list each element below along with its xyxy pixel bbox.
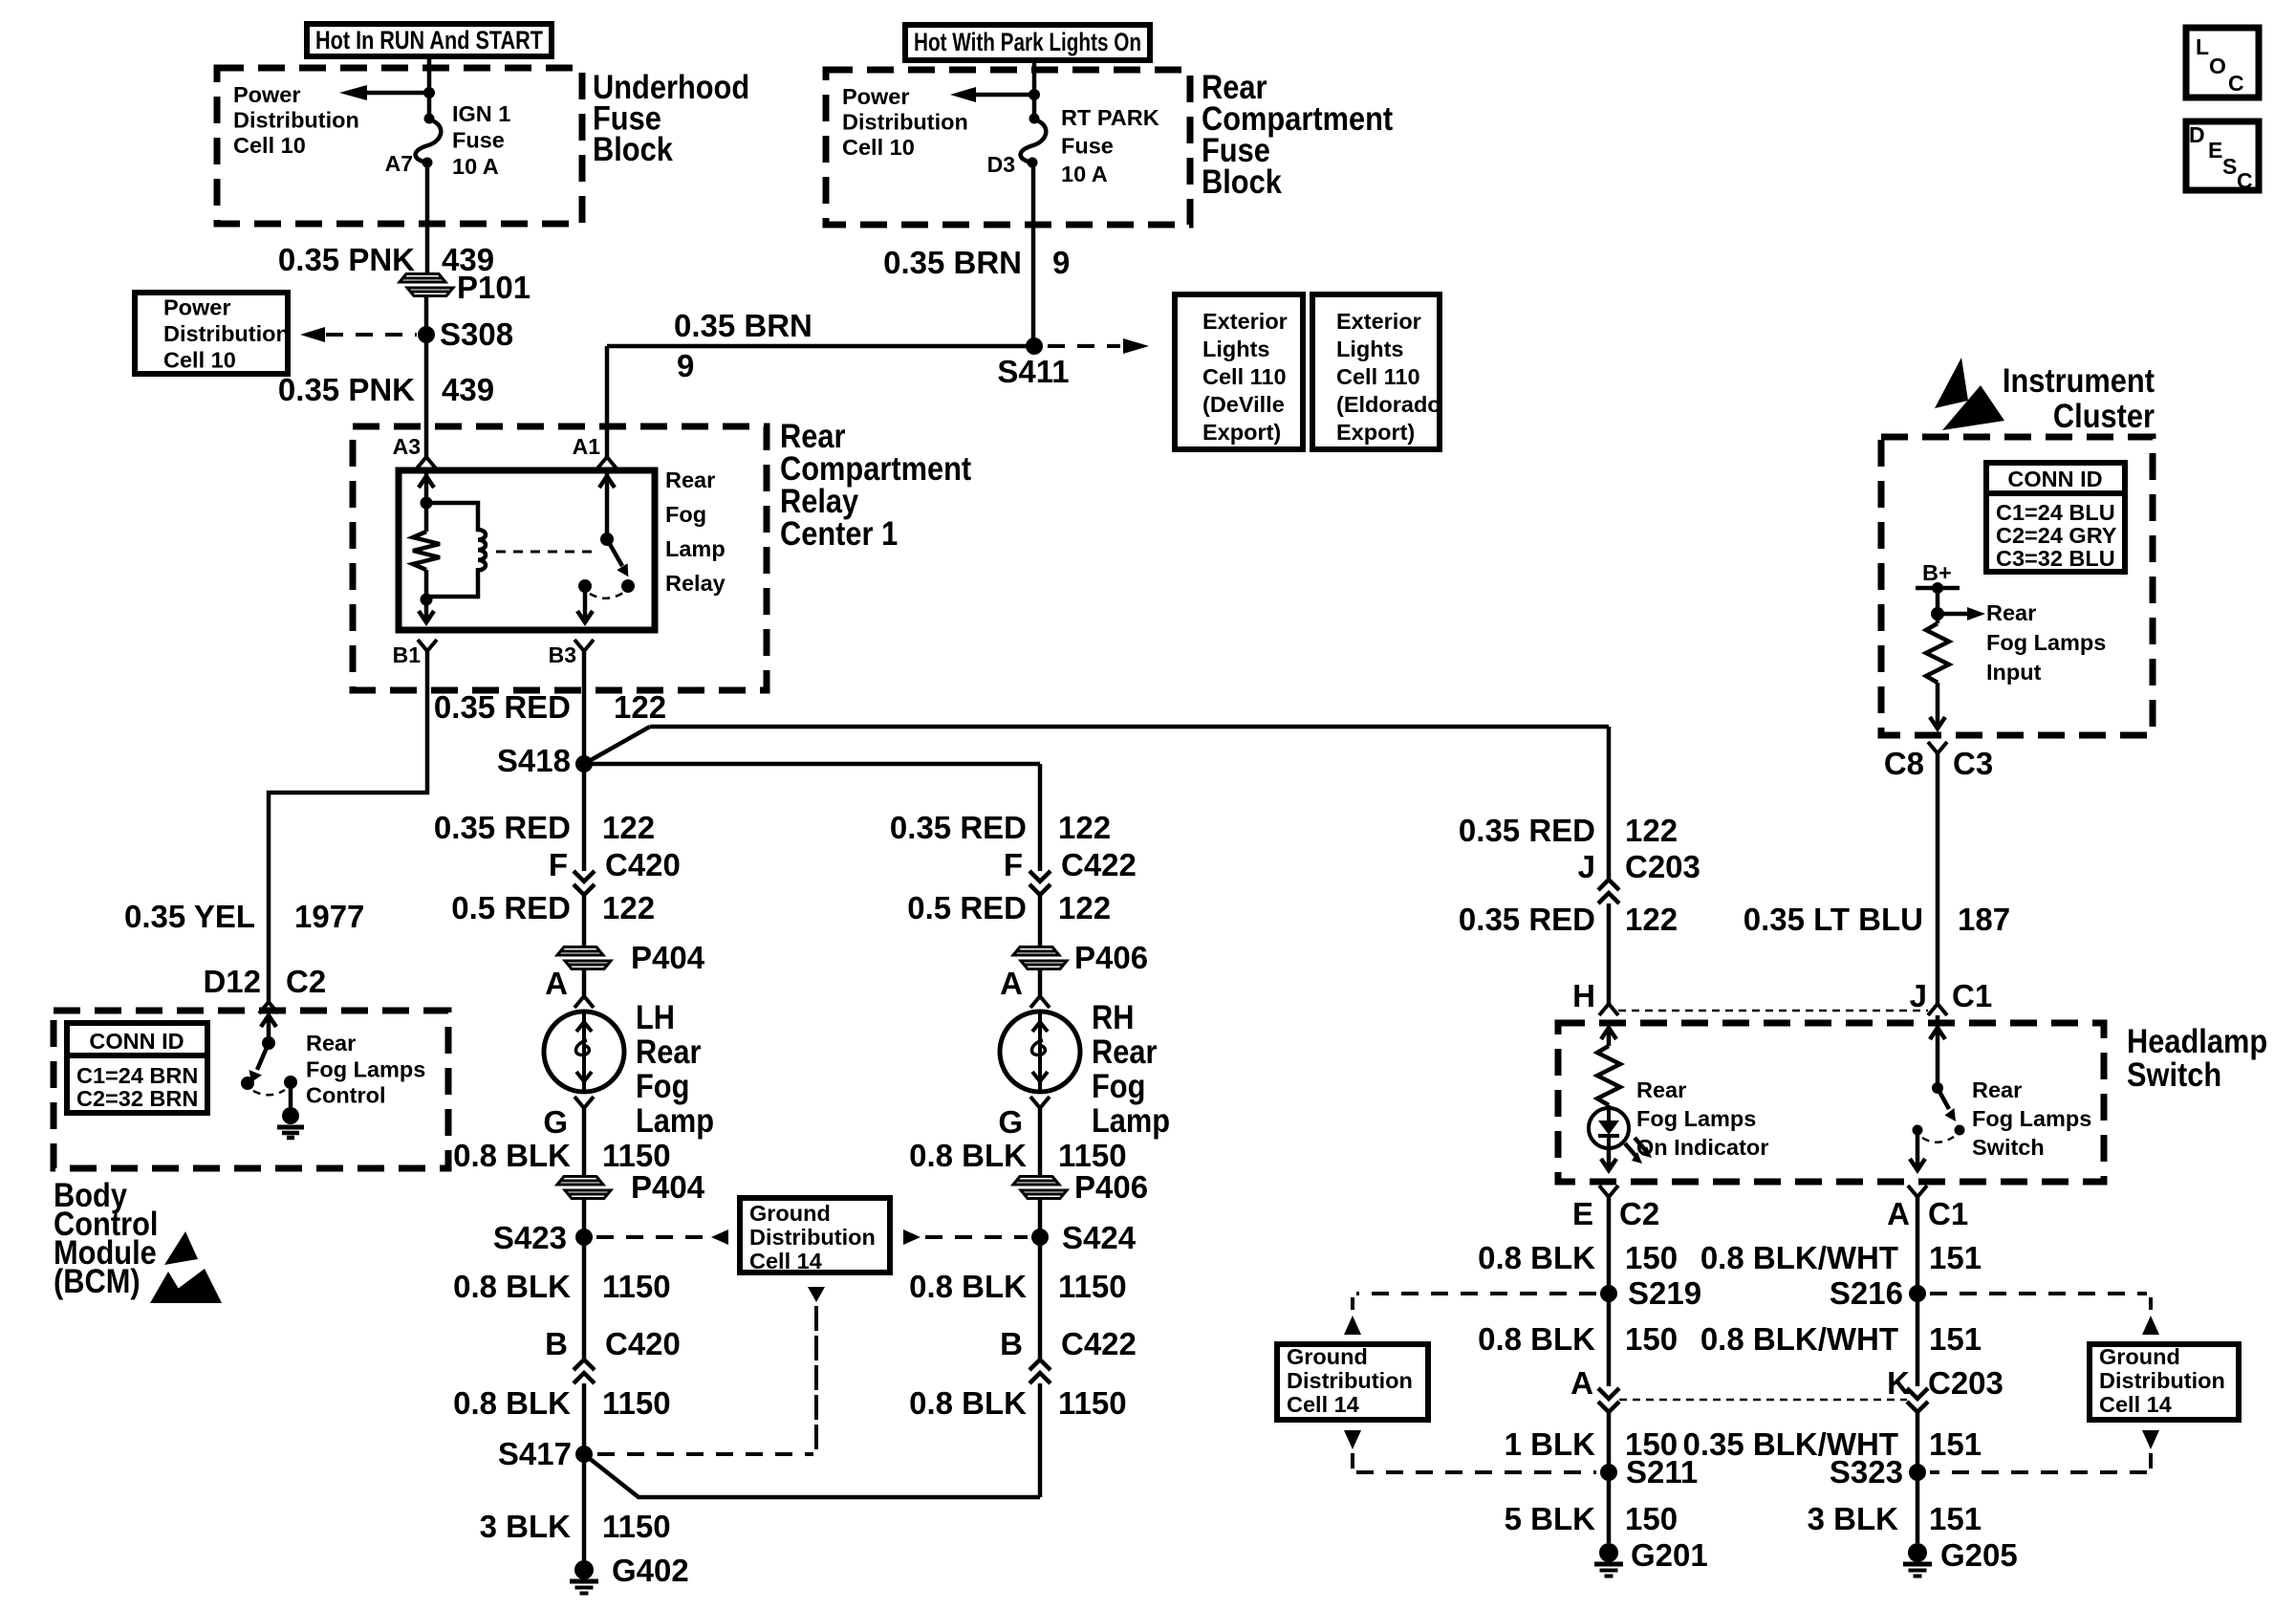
pin C8 C3	[1884, 742, 1993, 781]
headlamp switch pivot	[1932, 1082, 1943, 1094]
label 0.35 PNK 439	[278, 242, 494, 277]
node park fuse feed	[1029, 89, 1040, 100]
svg-text:C3: C3	[1953, 746, 1993, 781]
BCM switch arm	[249, 1043, 270, 1082]
resistor fog lamps input	[1926, 623, 1949, 683]
svg-text:151: 151	[1929, 1240, 1982, 1275]
LED light arrows	[1625, 1138, 1652, 1164]
svg-text:1150: 1150	[602, 1269, 671, 1304]
label 0.8 BLK 1150	[909, 1269, 1126, 1304]
wire RH return	[1038, 1108, 1043, 1177]
svg-text:C1=24 BLU: C1=24 BLU	[1996, 500, 2115, 525]
splice S424	[1031, 1220, 1137, 1255]
wire to LH lamp	[582, 968, 587, 996]
box Ground Distribution Cell 14 (middle)	[740, 1198, 890, 1273]
wire resistor to connector	[1936, 683, 1940, 729]
svg-text:0.8 BLK: 0.8 BLK	[1478, 1240, 1595, 1275]
svg-text:0.8 BLK: 0.8 BLK	[909, 1269, 1027, 1304]
dashed reference S423 to ground distribution	[596, 1229, 728, 1245]
splice S211	[1600, 1454, 1698, 1490]
relay coil	[426, 503, 486, 597]
svg-text:122: 122	[1625, 902, 1678, 937]
svg-text:C2: C2	[286, 964, 326, 999]
splice S308	[418, 316, 513, 352]
svg-text:0.35 LT BLU: 0.35 LT BLU	[1744, 902, 1923, 937]
BCM switch contact left	[241, 1077, 254, 1090]
rear compartment fuse block dashed box	[826, 70, 1190, 225]
connector grommet P404	[557, 940, 705, 975]
connector face dashed line	[1618, 1010, 1928, 1012]
connector grommet P404 return	[557, 1169, 705, 1205]
svg-text:A: A	[545, 966, 568, 1001]
wire LH feed	[582, 764, 587, 871]
wire B+ feed	[1936, 588, 1940, 623]
dashed reference S417 to ground distribution	[597, 1310, 816, 1454]
label 0.35 YEL 1977	[124, 899, 364, 934]
svg-text:0.35 YEL: 0.35 YEL	[124, 899, 255, 934]
svg-text:C1: C1	[1928, 1196, 1968, 1231]
arrow down cluster output	[1930, 717, 1945, 729]
arrow up into relay	[419, 476, 434, 488]
relay center 1 dashed box	[353, 426, 767, 690]
svg-text:C3=32 BLU: C3=32 BLU	[1996, 546, 2115, 571]
svg-text:9: 9	[677, 348, 694, 383]
svg-text:G205: G205	[1940, 1537, 2018, 1573]
wire hot park feed	[1032, 60, 1037, 119]
svg-text:5 BLK: 5 BLK	[1505, 1501, 1596, 1536]
fuse IGN 1 10 A	[416, 120, 442, 163]
splice S219	[1600, 1275, 1701, 1311]
box Ground Distribution Cell 14 (left)	[1277, 1344, 1428, 1420]
svg-text:C422: C422	[1061, 1326, 1137, 1361]
mechanical linkage dashed	[496, 551, 594, 554]
svg-text:S216: S216	[1830, 1275, 1903, 1311]
svg-text:1 BLK: 1 BLK	[1505, 1426, 1596, 1462]
BCM switch input arrow	[261, 1015, 276, 1043]
connector C420 pin B	[545, 1326, 681, 1383]
node fuse bottom A7	[422, 158, 433, 168]
label 0.5 RED 122	[907, 890, 1111, 925]
svg-text:A7: A7	[385, 151, 413, 176]
wire RH feed	[1038, 764, 1043, 871]
wire 0.35 BRN 9 horizontal	[607, 344, 1034, 349]
svg-text:S308: S308	[440, 316, 513, 352]
svg-text:S211: S211	[1626, 1454, 1698, 1490]
svg-text:E: E	[1572, 1196, 1593, 1231]
svg-text:G201: G201	[1631, 1537, 1708, 1573]
ground BCM internal	[277, 1107, 304, 1138]
wire to RH lamp	[1038, 968, 1043, 996]
svg-text:0.35 PNK: 0.35 PNK	[278, 242, 415, 277]
svg-text:S219: S219	[1628, 1275, 1701, 1311]
arrow to power distribution	[339, 85, 429, 100]
svg-text:122: 122	[614, 689, 666, 725]
svg-text:0.35 RED: 0.35 RED	[434, 689, 571, 725]
BCM switch pivot	[262, 1036, 275, 1050]
wire B1 to BCM	[269, 651, 427, 1002]
wire resistor to LED	[1607, 1105, 1612, 1108]
svg-text:A3: A3	[393, 434, 421, 459]
svg-text:G: G	[998, 1104, 1023, 1140]
node coil bottom	[421, 594, 433, 606]
banner Hot In RUN And START	[307, 24, 552, 56]
wire LED out arrow	[1601, 1148, 1616, 1170]
svg-text:151: 151	[1929, 1501, 1982, 1536]
svg-text:G: G	[543, 1104, 568, 1140]
label 3 BLK 151	[1808, 1501, 1982, 1536]
svg-text:J: J	[1578, 849, 1595, 884]
node fuse top	[424, 114, 435, 124]
svg-text:0.8 BLK: 0.8 BLK	[453, 1138, 571, 1173]
wire A1 drop	[605, 346, 610, 457]
headlamp switch dashed box	[1558, 1023, 2104, 1182]
box Power Distribution Cell 10	[135, 293, 290, 374]
label 0.35 RED 122	[434, 810, 655, 845]
wire to S323	[1916, 1412, 1920, 1472]
splice S423	[493, 1220, 593, 1255]
svg-text:P404: P404	[631, 940, 705, 975]
svg-text:151: 151	[1929, 1321, 1982, 1357]
svg-text:C203: C203	[1625, 849, 1700, 884]
label 0.35 RED 122	[1459, 813, 1678, 848]
svg-text:C2: C2	[1619, 1196, 1659, 1231]
wire B3 to S418	[582, 651, 587, 764]
wire S418 riser	[584, 727, 650, 764]
svg-text:0.35 BRN: 0.35 BRN	[883, 245, 1022, 280]
underhood fuse block dashed box	[217, 68, 582, 224]
svg-text:K: K	[1887, 1365, 1910, 1401]
wire 439 PNK	[425, 163, 430, 274]
wire to S417	[582, 1383, 587, 1454]
connector C203 pin J	[1578, 849, 1700, 903]
svg-text:0.5 RED: 0.5 RED	[907, 890, 1027, 925]
node fuse bottom D3	[1028, 158, 1038, 168]
wire to BCM ground	[289, 1082, 293, 1107]
svg-text:187: 187	[1958, 902, 2010, 937]
svg-text:CONN ID: CONN ID	[89, 1029, 184, 1054]
svg-text:E: E	[2208, 138, 2222, 163]
svg-text:0.8 BLK/WHT: 0.8 BLK/WHT	[1700, 1321, 1898, 1357]
lamp RH rear fog	[1000, 1012, 1080, 1092]
label 0.35 PNK 439	[278, 372, 494, 407]
relay switch contact open	[621, 579, 635, 593]
label 0.8 BLK 1150	[909, 1138, 1126, 1173]
svg-text:B1: B1	[393, 642, 422, 667]
dashed reference S424 to ground distribution	[903, 1229, 1028, 1245]
wire S219 to C203 A	[1607, 1294, 1612, 1386]
svg-text:1150: 1150	[1058, 1269, 1127, 1304]
svg-text:H: H	[1572, 978, 1595, 1013]
headlamp switch arm	[1938, 1088, 1956, 1121]
svg-text:C420: C420	[605, 1326, 681, 1361]
relay switch contact fixed	[578, 579, 592, 593]
splice S411	[997, 337, 1069, 389]
pin A LH lamp	[545, 966, 594, 1008]
wire to G201	[1607, 1472, 1612, 1543]
arrow down out of relay	[419, 611, 434, 622]
connector grommet P406	[1013, 940, 1148, 975]
svg-text:O: O	[2209, 54, 2226, 78]
wire to S308	[424, 295, 429, 457]
svg-text:G402: G402	[612, 1553, 689, 1588]
B+ bus bar	[1916, 582, 1960, 594]
label 0.8 BLK 1150	[909, 1385, 1126, 1421]
svg-text:C1=24 BRN: C1=24 BRN	[76, 1063, 198, 1088]
svg-text:0.8 BLK: 0.8 BLK	[453, 1269, 571, 1304]
box Exterior Lights Cell 110 DeVille	[1175, 294, 1303, 449]
wire to G402	[582, 1454, 587, 1562]
node fog lamps input	[1931, 607, 1944, 620]
wire to headlamp switch H	[1607, 903, 1612, 1004]
wire to S424	[1038, 1198, 1043, 1360]
wire 187 LT BLU	[1936, 753, 1940, 1004]
svg-text:S323: S323	[1830, 1454, 1903, 1490]
ESD symbol BCM	[150, 1231, 222, 1303]
connector C203 pin K	[1887, 1365, 2004, 1412]
svg-text:B+: B+	[1922, 560, 1952, 585]
svg-text:0.35 PNK: 0.35 PNK	[278, 372, 415, 407]
arrow rear fog lamps input	[1938, 607, 1985, 620]
arrow down relay output	[577, 611, 593, 622]
wire relay output	[583, 586, 588, 622]
svg-text:B: B	[1000, 1326, 1023, 1361]
svg-text:0.35 RED: 0.35 RED	[434, 810, 571, 845]
svg-text:C420: C420	[605, 847, 681, 882]
pin G LH lamp	[543, 1097, 594, 1140]
svg-text:0.8 BLK/WHT: 0.8 BLK/WHT	[1700, 1240, 1898, 1275]
svg-text:122: 122	[602, 810, 655, 845]
wire LH return	[582, 1108, 587, 1177]
svg-text:S418: S418	[497, 743, 571, 778]
label 0.8 BLK 1150	[453, 1385, 670, 1421]
wire hot feed	[427, 56, 432, 119]
box DESC	[2186, 121, 2259, 193]
splice S216	[1830, 1275, 1926, 1311]
svg-text:P406: P406	[1074, 940, 1148, 975]
label 0.35 LT BLU 187	[1744, 902, 2010, 937]
dashed reference S216 to ground distribution right	[1930, 1294, 2159, 1335]
svg-text:0.8 BLK: 0.8 BLK	[909, 1385, 1027, 1421]
svg-text:B3: B3	[549, 642, 576, 667]
svg-text:S411: S411	[997, 354, 1069, 389]
svg-text:0.35 RED: 0.35 RED	[1459, 813, 1595, 848]
arrow up into relay switch	[599, 476, 615, 488]
svg-text:0.5 RED: 0.5 RED	[451, 890, 571, 925]
wire A to S216	[1916, 1197, 1920, 1294]
svg-text:P404: P404	[631, 1169, 705, 1205]
svg-text:150: 150	[1625, 1240, 1678, 1275]
ground G402	[570, 1553, 689, 1594]
svg-text:C2=32 BRN: C2=32 BRN	[76, 1086, 198, 1111]
label 0.8 BLK 150	[1478, 1240, 1678, 1275]
svg-text:CONN ID: CONN ID	[2007, 467, 2102, 491]
svg-text:C2=24 GRY: C2=24 GRY	[1996, 523, 2117, 548]
svg-text:1150: 1150	[1058, 1138, 1127, 1173]
wire S216 to C203 K	[1916, 1294, 1920, 1386]
svg-text:0.35 BRN: 0.35 BRN	[674, 308, 812, 343]
svg-text:1150: 1150	[602, 1385, 671, 1421]
label 0.35 RED 122	[890, 810, 1111, 845]
pin G RH lamp	[998, 1097, 1050, 1140]
wire 9 BRN down to S411	[1031, 163, 1036, 346]
dashed reference ground distribution left to S211	[1344, 1430, 1596, 1472]
wire to RH lamp	[584, 762, 1040, 767]
label 1 BLK 150	[1505, 1426, 1678, 1462]
headlamp switch contact fixed	[1913, 1125, 1923, 1136]
LED rear fog lamps on indicator	[1589, 1108, 1629, 1148]
headlamp switch contact open	[1955, 1125, 1965, 1136]
connector C203 pin A	[1570, 1365, 1619, 1412]
BCM switch arc dashed	[253, 1090, 285, 1095]
label 0.35 BLK/WHT 151	[1682, 1426, 1982, 1462]
svg-text:A: A	[1000, 966, 1023, 1001]
splice S418	[497, 743, 593, 778]
svg-text:150: 150	[1625, 1501, 1678, 1536]
wire coil bottom	[424, 570, 429, 622]
lamp LH rear fog	[544, 1012, 624, 1092]
connector pin A1	[573, 434, 617, 468]
label 0.8 BLK 1150	[453, 1269, 670, 1304]
svg-text:D3: D3	[987, 152, 1015, 177]
node park fuse top	[1029, 114, 1040, 124]
svg-text:C8: C8	[1884, 746, 1924, 781]
connector face dashed line C203	[1619, 1399, 1907, 1402]
svg-text:3 BLK: 3 BLK	[480, 1509, 572, 1544]
svg-text:439: 439	[442, 372, 494, 407]
svg-text:C422: C422	[1061, 847, 1137, 882]
connector pin B3	[549, 640, 594, 667]
svg-text:A: A	[1570, 1365, 1593, 1401]
wire S417 to RH return	[584, 1454, 1040, 1497]
connector C422 pin F	[1004, 847, 1137, 895]
wire to P404	[582, 895, 587, 946]
svg-text:P406: P406	[1074, 1169, 1148, 1205]
svg-text:P101: P101	[457, 270, 531, 305]
arrow to power distribution (rear)	[950, 87, 1034, 102]
svg-text:F: F	[549, 847, 568, 882]
label 0.8 BLK 150	[1478, 1321, 1678, 1357]
label 3 BLK 1150	[480, 1509, 671, 1544]
ESD symbol instrument cluster	[1935, 358, 2004, 430]
ground G201	[1594, 1537, 1708, 1577]
connector pin A3	[393, 434, 436, 468]
svg-text:C: C	[2228, 71, 2244, 96]
node coil top	[421, 497, 433, 510]
svg-text:1977: 1977	[294, 899, 364, 934]
connector pin B1	[393, 640, 437, 667]
wire relay coil input	[424, 472, 429, 532]
connector C420 pin F	[549, 847, 681, 895]
svg-text:J: J	[1910, 978, 1927, 1013]
svg-text:S423: S423	[493, 1220, 567, 1255]
resistor relay coil suppressor	[413, 532, 440, 570]
dashed reference to exterior lights	[1048, 338, 1149, 354]
svg-text:122: 122	[1058, 890, 1111, 925]
connector C422 pin B	[1000, 1326, 1137, 1383]
label 0.8 BLK/WHT 151	[1700, 1321, 1982, 1357]
svg-text:1150: 1150	[1058, 1385, 1127, 1421]
svg-text:0.35 RED: 0.35 RED	[890, 810, 1027, 845]
svg-text:0.8 BLK: 0.8 BLK	[909, 1138, 1027, 1173]
svg-text:Hot In RUN And START: Hot In RUN And START	[315, 26, 543, 54]
svg-text:C203: C203	[1928, 1365, 2004, 1401]
svg-text:150: 150	[1625, 1321, 1678, 1357]
svg-text:0.35 RED: 0.35 RED	[1459, 902, 1595, 937]
label 0.8 BLK/WHT 151	[1700, 1240, 1982, 1275]
svg-text:Hot With Park Lights On: Hot With Park Lights On	[914, 28, 1141, 56]
label 0.35 RED 122	[1459, 902, 1678, 937]
headlamp switch arc dashed	[1922, 1137, 1954, 1142]
instrument CONN ID table	[1986, 463, 2125, 572]
instrument cluster dashed box	[1881, 437, 2153, 735]
wire to G205	[1916, 1472, 1920, 1543]
svg-text:1150: 1150	[602, 1509, 671, 1544]
svg-text:122: 122	[1625, 813, 1678, 848]
ground G205	[1903, 1537, 2018, 1577]
connector grommet P406 return	[1013, 1169, 1148, 1205]
svg-text:122: 122	[1058, 810, 1111, 845]
wire switch out arrow	[1910, 1130, 1925, 1170]
banner Hot With Park Lights On	[905, 25, 1150, 60]
svg-text:3 BLK: 3 BLK	[1808, 1501, 1899, 1536]
svg-text:0.8 BLK: 0.8 BLK	[1478, 1321, 1595, 1357]
svg-text:ExteriorLightsCell 110(DeVille: ExteriorLightsCell 110(DeVilleExport)	[1202, 309, 1288, 445]
wire to S211	[1607, 1412, 1612, 1472]
wire J column from S418	[1607, 727, 1612, 880]
resistor indicator	[1597, 1046, 1620, 1105]
pin E C2	[1572, 1186, 1659, 1231]
svg-text:A: A	[1887, 1196, 1910, 1231]
pin J C1 headlamp switch	[1910, 978, 1993, 1015]
splice S417	[498, 1436, 593, 1471]
svg-text:D12: D12	[203, 964, 261, 999]
label 0.35 RED 122	[434, 689, 666, 725]
dashed reference line to S308	[300, 327, 417, 342]
pin H headlamp switch	[1572, 978, 1618, 1015]
dashed reference S219 to ground distribution left	[1344, 1294, 1596, 1335]
wire E to S219	[1607, 1197, 1612, 1294]
wire to S423	[582, 1198, 587, 1360]
box Ground Distribution Cell 14 (right)	[2090, 1344, 2239, 1420]
fuse RT PARK 10 A	[1021, 120, 1047, 163]
wire switch input	[1930, 1015, 1945, 1088]
pin A C1	[1887, 1186, 1968, 1231]
svg-text:151: 151	[1929, 1426, 1982, 1462]
label 0.5 RED 122	[451, 890, 655, 925]
svg-text:D: D	[2189, 122, 2205, 147]
label 5 BLK 150	[1505, 1501, 1678, 1536]
box Exterior Lights Cell 110 Eldorado	[1312, 294, 1441, 449]
label 0.35 BRN 9	[883, 245, 1070, 280]
svg-text:L: L	[2196, 34, 2209, 59]
BCM dashed box	[54, 1011, 448, 1168]
svg-text:122: 122	[602, 890, 655, 925]
wire relay switch input	[605, 472, 610, 539]
svg-text:C1: C1	[1952, 978, 1992, 1013]
pin A RH lamp	[1000, 966, 1050, 1008]
svg-text:C: C	[2237, 168, 2253, 193]
wire indicator feed arrow	[1601, 1028, 1616, 1046]
relay switch arm	[607, 539, 628, 577]
relay switch pivot	[600, 533, 614, 546]
label 0.8 BLK 1150	[453, 1138, 670, 1173]
relay box rear fog lamp relay	[399, 470, 655, 630]
svg-text:1150: 1150	[602, 1138, 671, 1173]
svg-text:9: 9	[1052, 245, 1070, 280]
svg-text:0.8 BLK: 0.8 BLK	[453, 1385, 571, 1421]
dashed drop below ground distribution box	[808, 1287, 825, 1449]
BCM CONN ID table	[67, 1023, 207, 1113]
